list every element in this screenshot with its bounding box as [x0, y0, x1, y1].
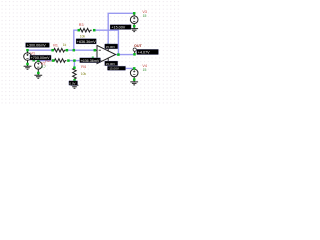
ground (V2): [34, 72, 42, 78]
svg-text:R1: R1: [53, 43, 58, 47]
svg-text:15: 15: [143, 68, 147, 72]
resistor R4 (vertical): [73, 65, 87, 80]
resistor R2: [45, 59, 66, 63]
probe box 15.00V (op-amp V- pin): [105, 61, 118, 66]
probe box 0.00V (R4 bottom): [69, 81, 78, 86]
wire op-amp output to OUT node: [116, 54, 135, 56]
svg-text:10k: 10k: [81, 72, 87, 76]
node OUT terminal: [133, 44, 142, 54]
wire V2 to R2: [38, 60, 53, 62]
svg-text:OUT: OUT: [134, 44, 143, 48]
probe box -15.00V (V4 supply rail): [107, 66, 125, 71]
svg-text:-15.00V: -15.00V: [108, 67, 119, 71]
voltage source V2: [35, 61, 47, 73]
probe box +636.36mV (non-inverting input): [80, 58, 101, 63]
probe box +636.36mV (inverting input): [76, 39, 96, 44]
svg-text:+700.00mV: +700.00mV: [31, 56, 51, 60]
svg-text:15.00V: 15.00V: [106, 45, 116, 49]
svg-text:R3: R3: [79, 23, 84, 27]
svg-text:15.00V: 15.00V: [106, 62, 116, 66]
probe box +300.00mV (V1 net): [26, 43, 50, 48]
ground (R4): [71, 85, 79, 88]
svg-text:+636.36mV: +636.36mV: [80, 59, 100, 63]
wire node to R4: [73, 61, 75, 68]
wire op-amp V- pin to V4: [108, 64, 134, 69]
junction/pin squares: [26, 12, 136, 81]
wire feedback tap up to R3: [74, 30, 79, 50]
svg-text:+636.36mV: +636.36mV: [77, 40, 97, 44]
resistor R1: [53, 43, 67, 52]
svg-text:+15.00V: +15.00V: [111, 26, 125, 30]
op-amp U1: [95, 45, 116, 64]
resistor R3 (feedback): [79, 23, 92, 38]
ground (V1): [24, 63, 32, 69]
svg-text:10k: 10k: [80, 34, 86, 38]
wire R1 to op-amp inverting input: [67, 49, 95, 51]
svg-text:+300.00mV: +300.00mV: [27, 44, 47, 48]
wire R4 bottom to ground: [74, 79, 76, 85]
probe box +15.00V (V3 supply rail): [110, 25, 131, 30]
svg-text:15: 15: [143, 14, 147, 18]
svg-text:1k: 1k: [63, 43, 67, 47]
voltage source V1: [24, 50, 36, 63]
voltage source V4: [130, 64, 147, 80]
wire R2 to op-amp non-inverting input: [68, 60, 94, 62]
svg-text:+4.07V: +4.07V: [138, 51, 150, 55]
probe box 15.00V (op-amp V+ pin): [105, 44, 118, 49]
probe box +4.07V (output): [137, 49, 159, 54]
ground (V4): [130, 80, 138, 85]
svg-text:0.7: 0.7: [41, 65, 46, 69]
wire V1 to R1: [28, 49, 53, 51]
svg-text:R4: R4: [81, 65, 86, 69]
wire R3 right to output column: [94, 30, 118, 54]
svg-text:0.0V: 0.0V: [69, 82, 75, 86]
wire V3 supply to op-amp V+ pin: [108, 13, 134, 45]
probe box +700.00mV (V2 net): [30, 55, 51, 60]
ground (V3): [130, 26, 138, 31]
voltage source V3: [130, 10, 147, 26]
